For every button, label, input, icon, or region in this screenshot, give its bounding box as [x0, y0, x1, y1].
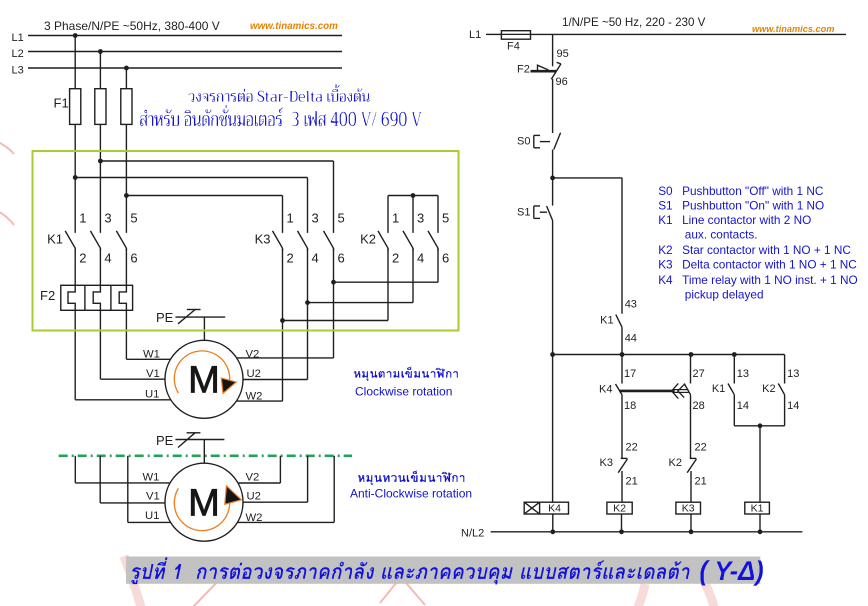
svg-text:K1: K1: [47, 232, 63, 247]
svg-text:14: 14: [737, 400, 749, 412]
svg-text:5: 5: [338, 211, 345, 226]
svg-text:K1: K1: [658, 213, 672, 227]
svg-text:2: 2: [79, 251, 86, 266]
svg-text:K3: K3: [600, 457, 613, 469]
svg-text:V1: V1: [146, 368, 160, 380]
svg-text:K4: K4: [658, 273, 673, 287]
svg-text:S0: S0: [658, 184, 673, 198]
svg-text:22: 22: [695, 442, 707, 454]
svg-text:K2: K2: [658, 243, 672, 257]
svg-text:5: 5: [442, 211, 449, 226]
svg-text:K2: K2: [613, 503, 626, 515]
svg-text:L1: L1: [469, 29, 481, 41]
svg-text:3 Phase/N/PE ~50Hz, 380-400 V: 3 Phase/N/PE ~50Hz, 380-400 V: [44, 19, 220, 33]
svg-text:6: 6: [442, 251, 449, 266]
svg-text:pickup delayed: pickup delayed: [685, 287, 764, 301]
svg-text:Pushbutton "Off" with 1 NC: Pushbutton "Off" with 1 NC: [682, 184, 824, 198]
svg-text:K3: K3: [658, 258, 673, 272]
svg-text:4: 4: [417, 251, 424, 266]
svg-text:3: 3: [417, 211, 424, 226]
svg-text:18: 18: [624, 400, 636, 412]
svg-text:2: 2: [287, 251, 294, 266]
svg-text:95: 95: [557, 48, 569, 60]
svg-text:K4: K4: [548, 503, 561, 515]
svg-text:K2: K2: [669, 457, 682, 469]
svg-text:www.tinamics.com: www.tinamics.com: [250, 21, 338, 32]
svg-text:K2: K2: [762, 383, 775, 395]
svg-text:S0: S0: [517, 136, 530, 148]
svg-text:Clockwise rotation: Clockwise rotation: [355, 385, 452, 399]
svg-text:PE: PE: [156, 310, 174, 325]
svg-text:F4: F4: [507, 41, 520, 53]
svg-text:3: 3: [104, 211, 111, 226]
svg-text:Line contactor with 2 NO: Line contactor with 2 NO: [682, 213, 811, 227]
svg-text:21: 21: [626, 476, 638, 488]
svg-text:13: 13: [787, 368, 799, 380]
svg-text:43: 43: [625, 299, 637, 311]
svg-text:1: 1: [287, 211, 294, 226]
svg-text:U1: U1: [145, 510, 159, 522]
svg-text:6: 6: [338, 251, 345, 266]
svg-text:14: 14: [787, 400, 799, 412]
svg-text:21: 21: [695, 476, 707, 488]
svg-text:K3: K3: [682, 503, 695, 515]
svg-text:V1: V1: [146, 491, 160, 503]
svg-text:Time relay with 1 NO inst. + 1: Time relay with 1 NO inst. + 1 NO: [682, 273, 858, 287]
svg-text:13: 13: [737, 368, 749, 380]
svg-text:2: 2: [392, 251, 399, 266]
svg-text:W1: W1: [143, 472, 160, 484]
svg-text:K1: K1: [600, 315, 613, 327]
svg-text:U2: U2: [247, 491, 261, 503]
svg-text:6: 6: [130, 251, 137, 266]
svg-text:K4: K4: [599, 384, 612, 396]
svg-text:V2: V2: [246, 472, 260, 484]
svg-text:4: 4: [104, 251, 111, 266]
svg-text:K3: K3: [255, 232, 271, 247]
svg-text:U2: U2: [247, 368, 261, 380]
svg-text:1: 1: [79, 211, 86, 226]
svg-text:17: 17: [624, 368, 636, 380]
svg-text:S1: S1: [517, 207, 530, 219]
svg-text:Anti-Clockwise rotation: Anti-Clockwise rotation: [350, 487, 472, 501]
svg-text:M: M: [188, 483, 220, 525]
svg-text:96: 96: [556, 76, 568, 88]
svg-text:Star contactor with 1 NO + 1 N: Star contactor with 1 NO + 1 NC: [682, 243, 851, 257]
svg-text:K1: K1: [751, 503, 764, 515]
svg-text:L2: L2: [12, 48, 24, 60]
svg-text:W1: W1: [143, 349, 160, 361]
svg-text:44: 44: [625, 333, 637, 345]
svg-text:27: 27: [693, 368, 705, 380]
svg-text:L1: L1: [12, 32, 24, 44]
svg-text:28: 28: [693, 400, 705, 412]
svg-text:M: M: [188, 360, 220, 402]
svg-text:K2: K2: [360, 232, 376, 247]
svg-text:N/L2: N/L2: [461, 528, 484, 540]
svg-text:22: 22: [626, 442, 638, 454]
svg-text:W2: W2: [246, 391, 263, 403]
svg-text:www.tinamics.com: www.tinamics.com: [752, 24, 834, 34]
svg-text:U1: U1: [145, 389, 159, 401]
svg-text:F1: F1: [54, 96, 69, 111]
svg-text:Pushbutton "On" with 1 NO: Pushbutton "On" with 1 NO: [682, 199, 824, 213]
svg-text:1/N/PE ~50 Hz, 220 - 230 V: 1/N/PE ~50 Hz, 220 - 230 V: [562, 16, 706, 29]
svg-text:V2: V2: [246, 349, 260, 361]
svg-text:K1: K1: [712, 383, 725, 395]
svg-text:F2: F2: [40, 288, 55, 303]
svg-text:4: 4: [312, 251, 319, 266]
svg-text:5: 5: [130, 211, 137, 226]
svg-text:Delta contactor with 1 NO + 1: Delta contactor with 1 NO + 1 NC: [682, 258, 857, 272]
svg-text:PE: PE: [156, 433, 174, 448]
svg-text:3: 3: [312, 211, 319, 226]
svg-text:F2: F2: [517, 64, 530, 76]
svg-text:W2: W2: [246, 512, 263, 524]
svg-text:1: 1: [392, 211, 399, 226]
svg-text:S1: S1: [658, 199, 672, 213]
svg-text:L3: L3: [12, 65, 24, 77]
svg-text:aux. contacts.: aux. contacts.: [685, 228, 758, 242]
